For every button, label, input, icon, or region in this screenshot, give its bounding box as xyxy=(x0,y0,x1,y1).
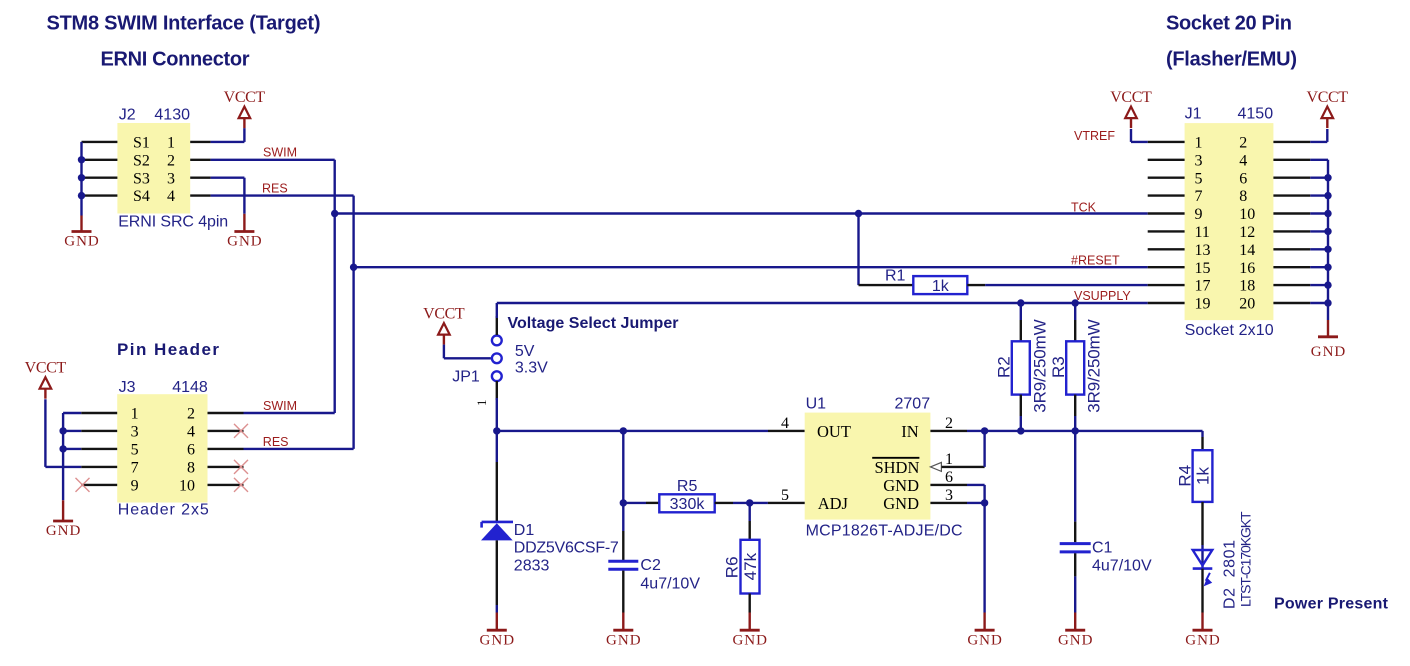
svg-text:4: 4 xyxy=(781,415,789,432)
svg-text:JP1: JP1 xyxy=(452,369,480,386)
svg-text:TCK: TCK xyxy=(1071,200,1097,214)
svg-text:7: 7 xyxy=(1195,188,1203,205)
svg-text:ERNI SRC 4pin: ERNI SRC 4pin xyxy=(118,214,228,231)
svg-text:6: 6 xyxy=(1239,170,1247,187)
svg-text:7: 7 xyxy=(131,460,139,477)
svg-text:S3: S3 xyxy=(133,170,150,187)
svg-text:S4: S4 xyxy=(133,188,150,205)
svg-text:IN: IN xyxy=(901,422,918,441)
svg-text:16: 16 xyxy=(1239,260,1255,277)
svg-text:VCCT: VCCT xyxy=(25,360,67,377)
svg-text:5V: 5V xyxy=(515,343,535,360)
svg-text:4u7/10V: 4u7/10V xyxy=(640,576,700,593)
svg-text:2: 2 xyxy=(1239,135,1247,152)
svg-text:47k: 47k xyxy=(741,552,760,580)
svg-text:3R9/250mW: 3R9/250mW xyxy=(1085,319,1104,412)
svg-text:U1: U1 xyxy=(806,396,827,413)
svg-text:1: 1 xyxy=(474,400,489,407)
svg-text:VCCT: VCCT xyxy=(1110,89,1152,106)
svg-text:20: 20 xyxy=(1239,296,1255,313)
svg-text:17: 17 xyxy=(1195,278,1211,295)
svg-text:10: 10 xyxy=(179,478,195,495)
svg-text:2: 2 xyxy=(187,406,195,423)
svg-text:12: 12 xyxy=(1239,224,1255,241)
svg-text:1k: 1k xyxy=(932,278,950,295)
svg-text:13: 13 xyxy=(1195,242,1211,259)
svg-text:J1: J1 xyxy=(1185,106,1202,123)
svg-text:DDZ5V6CSF-7: DDZ5V6CSF-7 xyxy=(514,539,619,556)
svg-text:SWIM: SWIM xyxy=(263,399,297,413)
svg-text:VCCT: VCCT xyxy=(224,89,266,106)
svg-text:18: 18 xyxy=(1239,278,1255,295)
svg-text:S2: S2 xyxy=(133,152,150,169)
svg-text:VTREF: VTREF xyxy=(1074,129,1115,143)
svg-text:1: 1 xyxy=(167,135,175,152)
svg-text:S1: S1 xyxy=(133,135,150,152)
svg-text:5: 5 xyxy=(131,442,139,459)
svg-text:11: 11 xyxy=(1195,224,1210,241)
svg-text:STM8 SWIM Interface (Target): STM8 SWIM Interface (Target) xyxy=(47,12,321,34)
svg-text:3: 3 xyxy=(131,424,139,441)
svg-text:1: 1 xyxy=(1195,135,1203,152)
svg-text:GND: GND xyxy=(883,476,919,495)
svg-text:4: 4 xyxy=(167,188,175,205)
svg-text:GND: GND xyxy=(967,632,1002,648)
svg-text:4148: 4148 xyxy=(172,379,208,396)
svg-text:OUT: OUT xyxy=(817,422,851,441)
svg-text:Power Present: Power Present xyxy=(1274,595,1389,612)
svg-text:3: 3 xyxy=(945,487,953,504)
svg-text:SWIM: SWIM xyxy=(263,146,297,160)
svg-text:R2: R2 xyxy=(994,356,1013,378)
svg-text:5: 5 xyxy=(781,487,789,504)
svg-text:5: 5 xyxy=(1195,170,1203,187)
svg-text:R5: R5 xyxy=(677,478,698,495)
svg-text:#RESET: #RESET xyxy=(1071,253,1120,267)
svg-text:VCCT: VCCT xyxy=(423,306,465,323)
svg-text:VSUPPLY: VSUPPLY xyxy=(1074,289,1131,303)
svg-text:R6: R6 xyxy=(723,556,742,578)
svg-text:GND: GND xyxy=(64,234,99,250)
svg-text:4u7/10V: 4u7/10V xyxy=(1092,557,1152,574)
svg-text:1: 1 xyxy=(945,451,953,468)
svg-text:4150: 4150 xyxy=(1238,106,1274,123)
svg-text:3R9/250mW: 3R9/250mW xyxy=(1030,319,1049,412)
svg-text:ERNI Connector: ERNI Connector xyxy=(101,48,250,70)
svg-text:2: 2 xyxy=(945,415,953,432)
svg-text:R3: R3 xyxy=(1049,356,1068,378)
svg-text:GND: GND xyxy=(732,632,767,648)
svg-text:Header 2x5: Header 2x5 xyxy=(118,502,209,519)
svg-text:4130: 4130 xyxy=(154,106,190,123)
svg-text:(Flasher/EMU): (Flasher/EMU) xyxy=(1166,48,1297,70)
svg-text:3: 3 xyxy=(1195,152,1203,169)
svg-text:9: 9 xyxy=(131,478,139,495)
svg-text:8: 8 xyxy=(1239,188,1247,205)
svg-text:LTST-C170KGKT: LTST-C170KGKT xyxy=(1237,511,1253,607)
svg-text:2707: 2707 xyxy=(895,396,931,413)
svg-text:2833: 2833 xyxy=(514,558,550,575)
svg-text:J2: J2 xyxy=(119,106,136,123)
svg-text:330k: 330k xyxy=(670,496,706,513)
svg-text:GND: GND xyxy=(227,234,262,250)
svg-text:8: 8 xyxy=(187,460,195,477)
svg-text:14: 14 xyxy=(1239,242,1255,259)
svg-text:Socket 2x10: Socket 2x10 xyxy=(1185,322,1274,339)
svg-text:6: 6 xyxy=(187,442,195,459)
svg-text:3: 3 xyxy=(167,170,175,187)
svg-text:ADJ: ADJ xyxy=(818,494,849,513)
svg-text:D2 2801: D2 2801 xyxy=(1222,540,1239,609)
svg-text:3.3V: 3.3V xyxy=(515,360,548,377)
svg-text:SHDN: SHDN xyxy=(874,458,919,477)
svg-text:GND: GND xyxy=(480,632,515,648)
svg-text:Voltage Select Jumper: Voltage Select Jumper xyxy=(508,315,679,332)
svg-text:R1: R1 xyxy=(885,268,906,285)
svg-text:1k: 1k xyxy=(1194,467,1213,485)
svg-text:GND: GND xyxy=(883,494,919,513)
svg-text:4: 4 xyxy=(187,424,195,441)
svg-text:GND: GND xyxy=(1311,344,1346,360)
svg-text:GND: GND xyxy=(46,523,81,539)
svg-text:MCP1826T-ADJE/DC: MCP1826T-ADJE/DC xyxy=(806,523,963,540)
svg-text:2: 2 xyxy=(167,152,175,169)
svg-text:6: 6 xyxy=(945,469,953,486)
svg-text:GND: GND xyxy=(1185,632,1220,648)
svg-text:4: 4 xyxy=(1239,152,1247,169)
svg-text:C2: C2 xyxy=(640,557,661,574)
svg-text:C1: C1 xyxy=(1092,540,1113,557)
svg-text:Pin Header: Pin Header xyxy=(117,340,219,359)
svg-text:GND: GND xyxy=(606,632,641,648)
svg-text:R4: R4 xyxy=(1175,465,1194,487)
svg-text:D1: D1 xyxy=(514,522,535,539)
svg-text:GND: GND xyxy=(1058,632,1093,648)
svg-text:Socket 20 Pin: Socket 20 Pin xyxy=(1166,12,1292,34)
svg-text:15: 15 xyxy=(1195,260,1211,277)
svg-text:1: 1 xyxy=(131,406,139,423)
svg-text:J3: J3 xyxy=(119,379,136,396)
svg-text:10: 10 xyxy=(1239,206,1255,223)
svg-text:9: 9 xyxy=(1195,206,1203,223)
svg-text:VCCT: VCCT xyxy=(1307,89,1349,106)
svg-text:RES: RES xyxy=(263,435,289,449)
svg-text:19: 19 xyxy=(1195,296,1211,313)
svg-text:RES: RES xyxy=(262,181,288,195)
